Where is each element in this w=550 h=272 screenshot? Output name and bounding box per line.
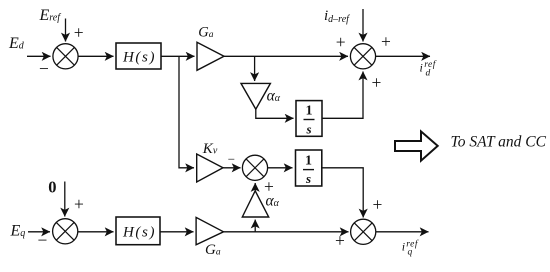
svg-text:1: 1	[305, 153, 312, 168]
svg-text:s: s	[305, 171, 311, 186]
svg-text:d: d	[426, 69, 431, 79]
svg-text:+: +	[372, 73, 382, 93]
svg-text:H(s): H(s)	[122, 225, 156, 241]
svg-text:+: +	[373, 195, 383, 215]
svg-text:H(s): H(s)	[122, 49, 156, 65]
svg-text:+: +	[264, 177, 274, 197]
svg-text:q: q	[408, 247, 413, 257]
svg-text:−: −	[228, 152, 235, 167]
svg-text:+: +	[335, 231, 345, 251]
svg-text:i: i	[402, 240, 405, 254]
svg-text:To SAT and CC: To SAT and CC	[451, 134, 547, 151]
svg-text:+: +	[336, 32, 346, 52]
svg-text:+: +	[74, 23, 84, 43]
svg-text:+: +	[74, 194, 84, 214]
svg-text:s: s	[305, 122, 311, 137]
svg-text:−: −	[38, 230, 48, 250]
svg-text:−: −	[39, 59, 49, 79]
svg-text:1: 1	[306, 104, 313, 119]
svg-text:i: i	[420, 61, 423, 75]
svg-text:0: 0	[48, 177, 56, 196]
svg-text:+: +	[381, 32, 391, 52]
